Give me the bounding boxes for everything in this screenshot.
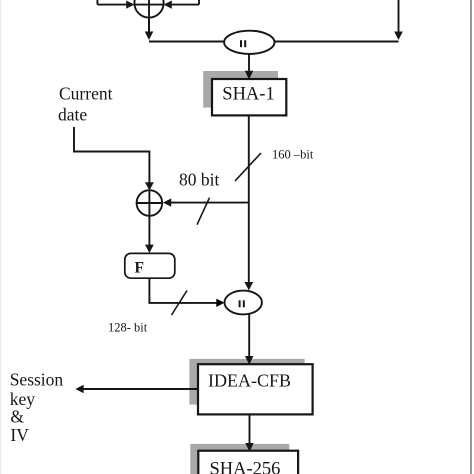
arrowhead X1 down at junction bbox=[145, 32, 154, 41]
slash 128-bit bbox=[172, 291, 188, 316]
svg-text:F: F bbox=[135, 260, 144, 277]
block F bbox=[125, 253, 175, 278]
wire Session key output bbox=[83, 388, 199, 390]
wire IDEA-CFB to SHA-256 bbox=[249, 414, 251, 443]
block IDEA-CFB bbox=[198, 364, 313, 414]
arrowhead into U2 top bbox=[244, 282, 253, 290]
block SHA-256 shadow bbox=[190, 444, 289, 474]
wire X1 output down to junction bbox=[148, 18, 150, 32]
svg-text:80 bit: 80 bit bbox=[179, 170, 219, 190]
arrowhead into SHA-1 bbox=[245, 71, 253, 80]
svg-text:SHA-256: SHA-256 bbox=[210, 460, 281, 474]
page edge line right bbox=[470, 0, 472, 474]
wire F to U2 bbox=[149, 278, 217, 303]
wire top-right input bbox=[171, 0, 200, 5]
svg-text:128- bit: 128- bit bbox=[108, 321, 148, 335]
label Session key & IV bbox=[10, 370, 64, 446]
arrowhead into X1 left bbox=[126, 1, 134, 9]
arrowhead into X2 right bbox=[163, 198, 171, 206]
svg-text:date: date bbox=[58, 105, 87, 125]
page edge line left bbox=[0, 0, 2, 474]
wire branch to X2 bbox=[170, 202, 249, 204]
block SHA-1 bbox=[212, 79, 286, 115]
wire U2 to IDEA-CFB bbox=[248, 314, 250, 356]
svg-text:&: & bbox=[10, 407, 24, 427]
xor X1 (top, cut off) bbox=[134, 0, 163, 32]
svg-text:IDEA-CFB: IDEA-CFB bbox=[208, 371, 291, 391]
wire Current date to X2 bbox=[74, 127, 149, 184]
arrowhead into U2 left bbox=[216, 299, 224, 307]
block SHA-256 (cut at bottom) bbox=[198, 451, 298, 474]
svg-text:160 –bit: 160 –bit bbox=[272, 148, 314, 162]
wire horizontal to concat U1 bbox=[149, 41, 225, 43]
wire far-right input bbox=[274, 0, 398, 42]
wire top-left input bbox=[97, 0, 127, 5]
arrowhead into F top bbox=[145, 245, 154, 253]
svg-text:SHA-1: SHA-1 bbox=[222, 85, 274, 105]
arrowhead into X2 top bbox=[145, 182, 154, 190]
arrowhead far-right down at junction bbox=[394, 32, 403, 41]
arrowhead into SHA-256 bbox=[245, 443, 253, 452]
wire X2 to F bbox=[148, 216, 150, 246]
arrowhead into X1 right bbox=[164, 1, 172, 9]
concat U1 ellipse bbox=[224, 31, 274, 54]
wire SHA-1 output down to concat U2 bbox=[248, 115, 250, 283]
arrowhead session key bbox=[75, 385, 83, 393]
concat U2 ellipse bbox=[225, 291, 262, 315]
svg-text:IV: IV bbox=[10, 425, 29, 445]
block SHA-1 shadow bbox=[203, 71, 278, 108]
xor X2 bbox=[137, 190, 163, 216]
wire U1 to SHA-1 bbox=[248, 54, 250, 72]
slash 160-bit bbox=[235, 153, 261, 181]
arrowhead into IDEA-CFB bbox=[245, 356, 253, 365]
slash 80-bit bbox=[197, 198, 210, 225]
block IDEA-CFB shadow bbox=[189, 359, 304, 405]
svg-text:Session: Session bbox=[10, 370, 64, 390]
svg-text:Current: Current bbox=[59, 84, 113, 104]
